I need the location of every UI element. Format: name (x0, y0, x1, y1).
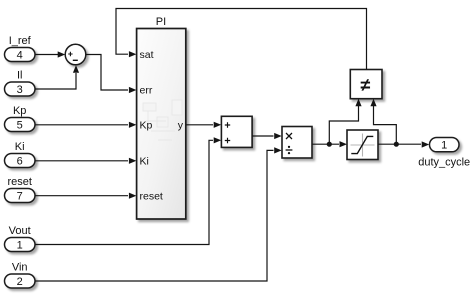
inport I_ref (4) (5, 35, 36, 62)
svg-text:Vin: Vin (12, 262, 28, 274)
svg-text:duty_cycle: duty_cycle (418, 157, 470, 169)
wire Ki to PI (35, 158, 136, 164)
wire divide out to saturation (312, 141, 347, 147)
svg-text:2: 2 (17, 276, 23, 288)
outport duty_cycle (1) (418, 138, 470, 169)
sum junction (circle +/-) (65, 44, 86, 65)
saturation block (347, 130, 378, 160)
wire I_ref to sum (35, 51, 65, 57)
wire Il to sum bottom (35, 65, 79, 89)
wire saturation to outport (378, 141, 429, 147)
faint content watermark (143, 100, 182, 140)
svg-text:Kp: Kp (13, 105, 26, 117)
wire junction A up to neq input 1 (329, 99, 361, 145)
svg-text:6: 6 (17, 155, 23, 167)
wire junction B up to neq input 2 (370, 99, 396, 145)
svg-text:Vout: Vout (9, 225, 31, 237)
inport Vin (2) (5, 262, 36, 289)
svg-text:sat: sat (140, 49, 154, 61)
wire Vin to divide input 2 (35, 147, 282, 281)
svg-text:7: 7 (17, 190, 23, 202)
svg-text:reset: reset (140, 190, 163, 202)
wire Kp to PI (35, 122, 136, 128)
svg-text:I_ref: I_ref (9, 35, 32, 47)
wire add to divide input 1 (252, 133, 282, 139)
svg-text:5: 5 (17, 119, 23, 131)
svg-text:1: 1 (441, 140, 447, 152)
svg-text:≠: ≠ (361, 75, 371, 95)
wire reset to PI (35, 193, 136, 199)
divide block (x /) (282, 127, 312, 159)
svg-text:PI: PI (156, 16, 166, 28)
wire sum to err (86, 55, 137, 94)
junction dot B (394, 142, 399, 147)
inport Kp (5) (5, 105, 36, 132)
svg-text:y: y (178, 119, 184, 131)
inport reset (7) (5, 176, 36, 203)
svg-text:3: 3 (17, 84, 23, 96)
svg-text:err: err (140, 85, 153, 97)
svg-text:Il: Il (17, 70, 23, 82)
svg-text:reset: reset (7, 176, 31, 188)
wire Vout to add input 2 (35, 137, 221, 244)
inport Ki (6) (5, 141, 36, 168)
subsystem PI (U1) (137, 16, 186, 219)
add block (+ +) (221, 116, 252, 147)
svg-text:1: 1 (17, 239, 23, 251)
inport Il (3) (5, 70, 36, 97)
svg-text:Kp: Kp (140, 119, 153, 131)
inport Vout (1) (5, 225, 36, 252)
wire PI y to add input 1 (186, 122, 221, 128)
relational operator neq (350, 70, 382, 99)
svg-text:Ki: Ki (140, 155, 149, 167)
junction dot A (327, 142, 332, 147)
svg-text:4: 4 (17, 49, 23, 61)
wire neq out feedback to PI sat (116, 9, 367, 70)
svg-text:Ki: Ki (15, 141, 25, 153)
